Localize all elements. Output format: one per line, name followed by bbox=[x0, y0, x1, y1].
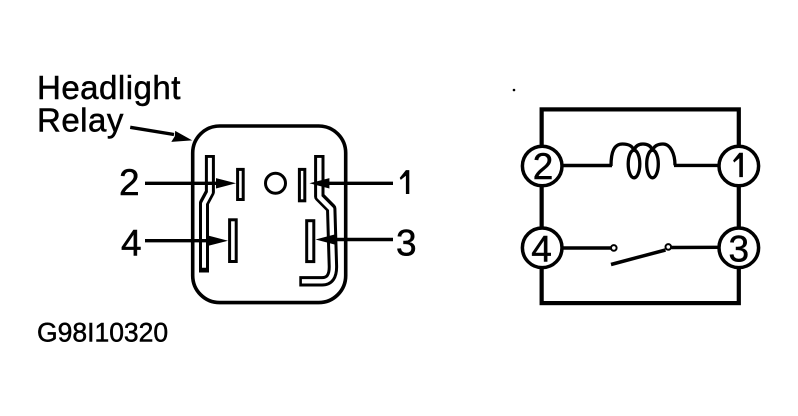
center hole of connector bbox=[266, 173, 286, 193]
svg-text:2: 2 bbox=[533, 146, 554, 187]
pin 1 slot bbox=[299, 169, 304, 200]
svg-text:2: 2 bbox=[119, 162, 140, 203]
arrow to pin 3 bbox=[316, 234, 394, 244]
wire from coil to terminal 1 bbox=[674, 164, 719, 167]
svg-text:3: 3 bbox=[729, 228, 750, 269]
switch contact left bbox=[611, 245, 617, 251]
arrow to pin 4 bbox=[145, 236, 228, 246]
wire from terminal 2 to coil bbox=[562, 164, 612, 167]
terminal 1 node bbox=[719, 146, 759, 186]
stray scan dot bbox=[513, 89, 516, 92]
wire from terminal 4 to switch bbox=[562, 246, 611, 249]
relay coil bbox=[611, 144, 675, 178]
schematic frame wire loop bbox=[542, 109, 739, 303]
svg-text:Relay: Relay bbox=[37, 102, 124, 139]
arrow to pin 1 bbox=[309, 178, 393, 188]
terminal 3 node bbox=[719, 228, 759, 269]
terminal 4 node bbox=[522, 228, 562, 269]
pin 4 slot bbox=[230, 220, 237, 262]
switch contact right bbox=[666, 244, 672, 250]
terminal 2 node bbox=[522, 146, 562, 187]
svg-text:G98I10320: G98I10320 bbox=[37, 317, 168, 347]
svg-text:4: 4 bbox=[531, 228, 552, 269]
arrow to pin 2 bbox=[145, 178, 236, 188]
leader arrow from label to relay connector bbox=[130, 127, 192, 142]
pin number 1 bbox=[400, 170, 410, 194]
switch blade (open) bbox=[611, 250, 666, 265]
left terminal strip inside connector bbox=[204, 155, 210, 273]
right terminal strip with bottom foot inside connector bbox=[299, 155, 333, 281]
relay connector body outline bbox=[193, 126, 346, 303]
pin 2 slot bbox=[238, 169, 244, 199]
label "Headlight Relay" bbox=[37, 69, 181, 139]
svg-text:3: 3 bbox=[396, 223, 417, 264]
svg-text:4: 4 bbox=[121, 223, 142, 264]
svg-text:Headlight: Headlight bbox=[37, 69, 181, 106]
wire from switch to terminal 3 bbox=[672, 246, 720, 250]
pin 3 slot bbox=[307, 221, 314, 262]
